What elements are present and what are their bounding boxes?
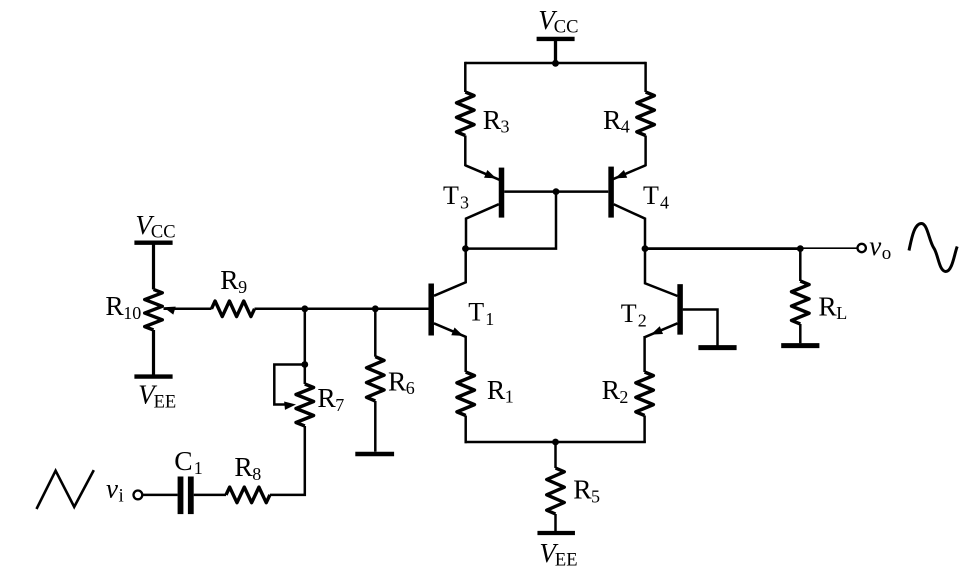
wire top rail bbox=[465, 62, 645, 65]
wire to output terminal bbox=[800, 247, 857, 249]
svg-text:o: o bbox=[882, 243, 892, 264]
svg-text:R: R bbox=[818, 290, 837, 321]
svg-text:R: R bbox=[105, 290, 124, 321]
svg-text:R: R bbox=[483, 104, 502, 135]
svg-text:v: v bbox=[869, 231, 881, 261]
svg-text:v: v bbox=[106, 474, 118, 504]
node R7 top bbox=[301, 361, 308, 368]
resistor R5 bbox=[547, 468, 565, 514]
wire R4 to T4 emitter bbox=[644, 136, 647, 167]
transistor T2 body bbox=[677, 284, 683, 335]
ground (T2 base) bbox=[698, 345, 736, 350]
svg-text:T: T bbox=[443, 181, 459, 210]
transistor T2 emitter lead bbox=[645, 323, 678, 337]
svg-text:T: T bbox=[621, 299, 637, 328]
svg-text:R: R bbox=[220, 264, 239, 295]
svg-text:EE: EE bbox=[154, 392, 177, 412]
svg-text:C: C bbox=[174, 445, 192, 476]
svg-text:CC: CC bbox=[554, 18, 579, 38]
node T3/T4 base junction bbox=[553, 188, 560, 195]
wire R7 top lead bbox=[304, 365, 307, 385]
wire T1 emitter to R1 bbox=[464, 336, 467, 372]
wire R3 to T3 emitter bbox=[464, 136, 467, 167]
svg-text:6: 6 bbox=[406, 378, 415, 398]
svg-text:10: 10 bbox=[123, 303, 141, 323]
wire T2 base to ground bbox=[683, 310, 718, 346]
node VCC rail junction bbox=[552, 60, 559, 67]
svg-text:R: R bbox=[602, 374, 621, 405]
svg-text:EE: EE bbox=[555, 551, 578, 571]
node RL junction bbox=[797, 245, 804, 252]
resistor RL bbox=[792, 281, 810, 324]
wire T3 base to junction bbox=[504, 190, 608, 193]
triangle wave symbol bbox=[37, 470, 94, 509]
wire R4 top lead bbox=[644, 62, 647, 92]
wire vi terminal to C1 bbox=[142, 494, 177, 497]
wire R2 to bottom rail bbox=[643, 416, 646, 443]
svg-text:4: 4 bbox=[621, 117, 630, 137]
svg-text:2: 2 bbox=[619, 387, 628, 407]
transistor T1 body bbox=[428, 284, 434, 336]
wire bottom rail bbox=[465, 441, 646, 444]
svg-text:R: R bbox=[487, 374, 506, 405]
wire VCC to R10 bbox=[152, 243, 155, 290]
svg-text:8: 8 bbox=[252, 464, 261, 484]
node base line / R6 branch bbox=[372, 305, 379, 312]
svg-text:3: 3 bbox=[460, 193, 469, 213]
wire R9 to T1 base bbox=[255, 308, 429, 311]
resistor R3 bbox=[457, 92, 475, 136]
svg-text:CC: CC bbox=[151, 223, 176, 243]
svg-text:R: R bbox=[234, 451, 253, 482]
power rail VEE (bottom) bbox=[537, 531, 575, 535]
wire RL to ground bbox=[799, 324, 802, 343]
wire output line bbox=[645, 247, 800, 250]
wire T2 emitter to R2 bbox=[643, 336, 646, 372]
potentiometer R10 bbox=[145, 289, 163, 330]
wire R5 to VEE bbox=[554, 514, 557, 531]
wire wiper to R9 bbox=[164, 308, 212, 311]
node output junction bbox=[642, 245, 649, 252]
svg-text:R: R bbox=[603, 104, 622, 135]
resistor R8 bbox=[226, 487, 270, 503]
svg-text:R: R bbox=[573, 474, 592, 505]
power rail VEE (left) bbox=[134, 374, 172, 378]
svg-text:9: 9 bbox=[238, 277, 247, 297]
svg-text:R: R bbox=[388, 365, 407, 396]
wire R3 top lead bbox=[464, 62, 467, 92]
node T3 collector bbox=[462, 245, 469, 252]
capacitor C1 bbox=[178, 477, 184, 515]
transistor T2 collector lead bbox=[645, 250, 678, 296]
wire VCC stub bbox=[554, 39, 557, 63]
transistor T4 collector lead bbox=[614, 204, 645, 250]
svg-text:2: 2 bbox=[638, 310, 647, 330]
wire R7 branch drop bbox=[304, 309, 307, 365]
svg-text:1: 1 bbox=[485, 309, 494, 329]
node tail junction bbox=[552, 439, 559, 446]
transistor T3 collector lead bbox=[466, 204, 499, 250]
resistor R9 bbox=[212, 301, 255, 317]
wire R5 top lead bbox=[554, 442, 557, 468]
node base line / R7 branch bbox=[301, 305, 308, 312]
svg-text:1: 1 bbox=[505, 387, 514, 407]
wiper arrow R7 bbox=[284, 401, 296, 409]
wire R6 to ground bbox=[374, 401, 377, 452]
wire RL top lead bbox=[799, 249, 802, 281]
svg-text:3: 3 bbox=[501, 117, 510, 137]
svg-text:i: i bbox=[119, 486, 124, 507]
wiper arrow R10 bbox=[164, 307, 176, 315]
svg-text:5: 5 bbox=[591, 486, 600, 506]
svg-text:T: T bbox=[468, 297, 484, 326]
resistor R1 bbox=[457, 372, 475, 416]
transistor T3 emitter lead bbox=[465, 165, 499, 180]
transistor T1 emitter lead bbox=[434, 323, 466, 337]
ground (RL) bbox=[781, 343, 819, 348]
ground (R6) bbox=[355, 452, 394, 457]
transistor T4 emitter lead bbox=[612, 165, 646, 180]
potentiometer R7 bbox=[296, 384, 314, 426]
wire R1 to bottom rail bbox=[464, 416, 467, 444]
wire T1 collector lead bbox=[434, 249, 466, 296]
svg-text:L: L bbox=[836, 303, 847, 323]
resistor R6 bbox=[367, 357, 385, 401]
transistor T4 body bbox=[608, 167, 614, 218]
wire R7 to input line bbox=[270, 426, 305, 495]
resistor R2 bbox=[636, 372, 654, 416]
wire R8 to C1 bbox=[194, 494, 226, 497]
wire base-collector tie (diode connection) bbox=[466, 192, 557, 249]
svg-text:R: R bbox=[317, 382, 336, 413]
svg-text:4: 4 bbox=[660, 193, 669, 213]
wire R10 to VEE bbox=[152, 330, 155, 375]
resistor R4 bbox=[637, 92, 655, 136]
sine wave symbol bbox=[909, 224, 957, 272]
terminal vo bbox=[858, 244, 866, 252]
wire R7 wiper loop bbox=[274, 365, 305, 405]
wire R6 branch drop bbox=[374, 309, 377, 357]
svg-text:1: 1 bbox=[194, 458, 203, 478]
transistor T3 body bbox=[499, 168, 505, 218]
terminal vi bbox=[134, 491, 143, 500]
svg-text:7: 7 bbox=[335, 395, 344, 415]
svg-text:T: T bbox=[643, 181, 659, 210]
